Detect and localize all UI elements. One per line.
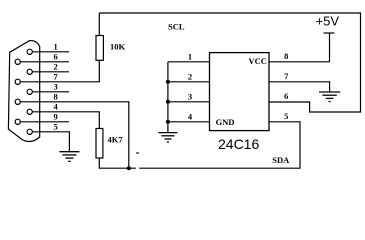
wire U1 pin 1: [168, 61, 210, 63]
svg-text:24C16: 24C16: [218, 136, 259, 152]
svg-text:10K: 10K: [110, 42, 126, 52]
svg-text:3: 3: [53, 82, 57, 92]
connector J1 DB9 body: [8, 41, 39, 142]
svg-text:6: 6: [53, 52, 57, 62]
wire U1 pin 4: [168, 121, 210, 123]
svg-text:+5V: +5V: [316, 14, 340, 29]
wire pin6 stub: [20, 61, 69, 63]
resistor R1 10K body: [96, 36, 103, 61]
ground at U1 pin 7: [319, 92, 340, 102]
svg-text:4K7: 4K7: [108, 135, 124, 145]
wire U1 pin 2: [168, 81, 210, 83]
junction SDA rail / pin8 wire: [127, 166, 131, 170]
svg-text:5: 5: [284, 111, 288, 121]
wire U1 left bus to ground: [167, 62, 169, 133]
J1 pin 5: [27, 129, 32, 134]
wire SDA rail right segment: [139, 122, 300, 168]
J1 pin 8: [15, 99, 20, 104]
wire pin2 stub: [32, 71, 69, 73]
J1 pin 6: [15, 59, 20, 64]
wire pin7 to resistor R1: [20, 60, 99, 82]
+5V power symbol: [329, 33, 331, 62]
junction bus pin 2: [166, 80, 170, 84]
wire pin4 to resistor R2: [32, 112, 99, 129]
J1 pin 4: [27, 109, 32, 114]
wire pin1 stub: [32, 51, 69, 53]
IC U1 24C16 body: [210, 53, 270, 131]
junction bus pin 4: [166, 120, 170, 124]
stray dash mark: [136, 152, 139, 154]
wire pin9 stub: [20, 121, 69, 123]
svg-text:4: 4: [53, 102, 58, 112]
svg-text:7: 7: [284, 71, 289, 81]
svg-text:SDA: SDA: [272, 155, 290, 165]
svg-text:1: 1: [53, 42, 57, 52]
svg-text:6: 6: [284, 91, 288, 101]
svg-text:GND: GND: [216, 117, 235, 127]
J1 pin 9: [15, 119, 20, 124]
J1 pin 3: [27, 89, 32, 94]
svg-text:VCC: VCC: [249, 56, 267, 66]
wire R2 bottom to SDA rail: [99, 158, 136, 168]
wire U1 pin 8 to +5V: [269, 61, 330, 63]
svg-text:7: 7: [53, 72, 58, 82]
ground at U1 address pins: [158, 133, 177, 143]
svg-text:5: 5: [53, 122, 57, 132]
svg-text:2: 2: [53, 62, 57, 72]
wire pin5 to ground: [32, 132, 69, 152]
ground at DB9 pin 5: [59, 152, 79, 162]
svg-text:8: 8: [284, 51, 288, 61]
svg-text:9: 9: [53, 112, 57, 122]
wire pin8 to SDA rail: [20, 102, 129, 168]
svg-text:SCL: SCL: [168, 22, 185, 32]
svg-text:3: 3: [188, 92, 192, 102]
wire pin3 stub: [32, 91, 69, 93]
J1 pin 1: [27, 49, 32, 54]
wire R1 top to SCL rail: [98, 13, 100, 36]
J1 pin 7: [15, 79, 20, 84]
svg-text:8: 8: [53, 92, 57, 102]
wire U1 pin 3: [168, 101, 210, 103]
svg-text:1: 1: [188, 52, 192, 62]
wire U1 pin 7 to ground: [269, 82, 330, 92]
resistor R2 4K7 body: [96, 129, 103, 159]
wire SCL top rail: [99, 13, 360, 112]
J1 pin 2: [27, 69, 32, 74]
junction bus pin 3: [166, 100, 170, 104]
svg-text:2: 2: [188, 72, 192, 82]
